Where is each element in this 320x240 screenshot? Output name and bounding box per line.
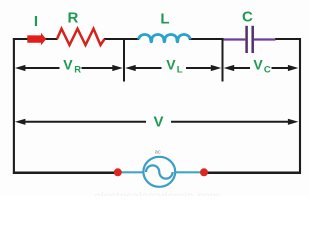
node tick between R and L — [123, 38, 125, 82]
svg-text:V: V — [153, 113, 163, 130]
node tick between L and C — [222, 38, 224, 82]
AC source circle — [143, 157, 175, 187]
svg-text:R: R — [74, 64, 81, 75]
svg-text:ac: ac — [155, 150, 161, 156]
wire top-left segment — [13, 38, 58, 40]
node dot right terminal — [200, 168, 208, 176]
svg-text:C: C — [264, 64, 271, 75]
wire between inductor and capacitor node — [189, 38, 224, 40]
current arrow I — [27, 33, 46, 46]
svg-text:V: V — [166, 57, 176, 73]
capacitor C left lead — [223, 38, 246, 40]
VR dimension arrow — [15, 65, 123, 71]
capacitor C plate 1 — [245, 26, 248, 53]
svg-text:L: L — [160, 10, 169, 27]
wire right wall — [299, 38, 301, 174]
wire blue right of source — [174, 171, 204, 173]
V dimension arrow — [15, 119, 299, 125]
VL dimension arrow — [125, 65, 221, 71]
capacitor C plate 2 — [251, 26, 254, 53]
VC dimension arrow — [224, 65, 299, 71]
wire left wall — [13, 38, 15, 174]
resistor R — [57, 29, 105, 45]
svg-text:electricalacademia.com: electricalacademia.com — [94, 189, 219, 196]
wire blue left of source — [118, 171, 145, 173]
AC source sine wave — [146, 165, 173, 178]
svg-text:R: R — [67, 10, 78, 27]
capacitor C right lead — [254, 38, 276, 40]
wire between resistor and inductor — [104, 38, 139, 40]
svg-text:V: V — [63, 57, 73, 73]
inductor L — [139, 35, 190, 42]
svg-text:L: L — [177, 64, 183, 75]
wire bottom-left segment — [13, 172, 118, 175]
svg-text:V: V — [253, 57, 263, 73]
svg-text:C: C — [242, 9, 253, 26]
node dot left terminal — [114, 168, 122, 176]
svg-text:I: I — [34, 13, 38, 30]
wire bottom-right segment — [204, 172, 301, 175]
wire top-right segment — [275, 38, 301, 40]
